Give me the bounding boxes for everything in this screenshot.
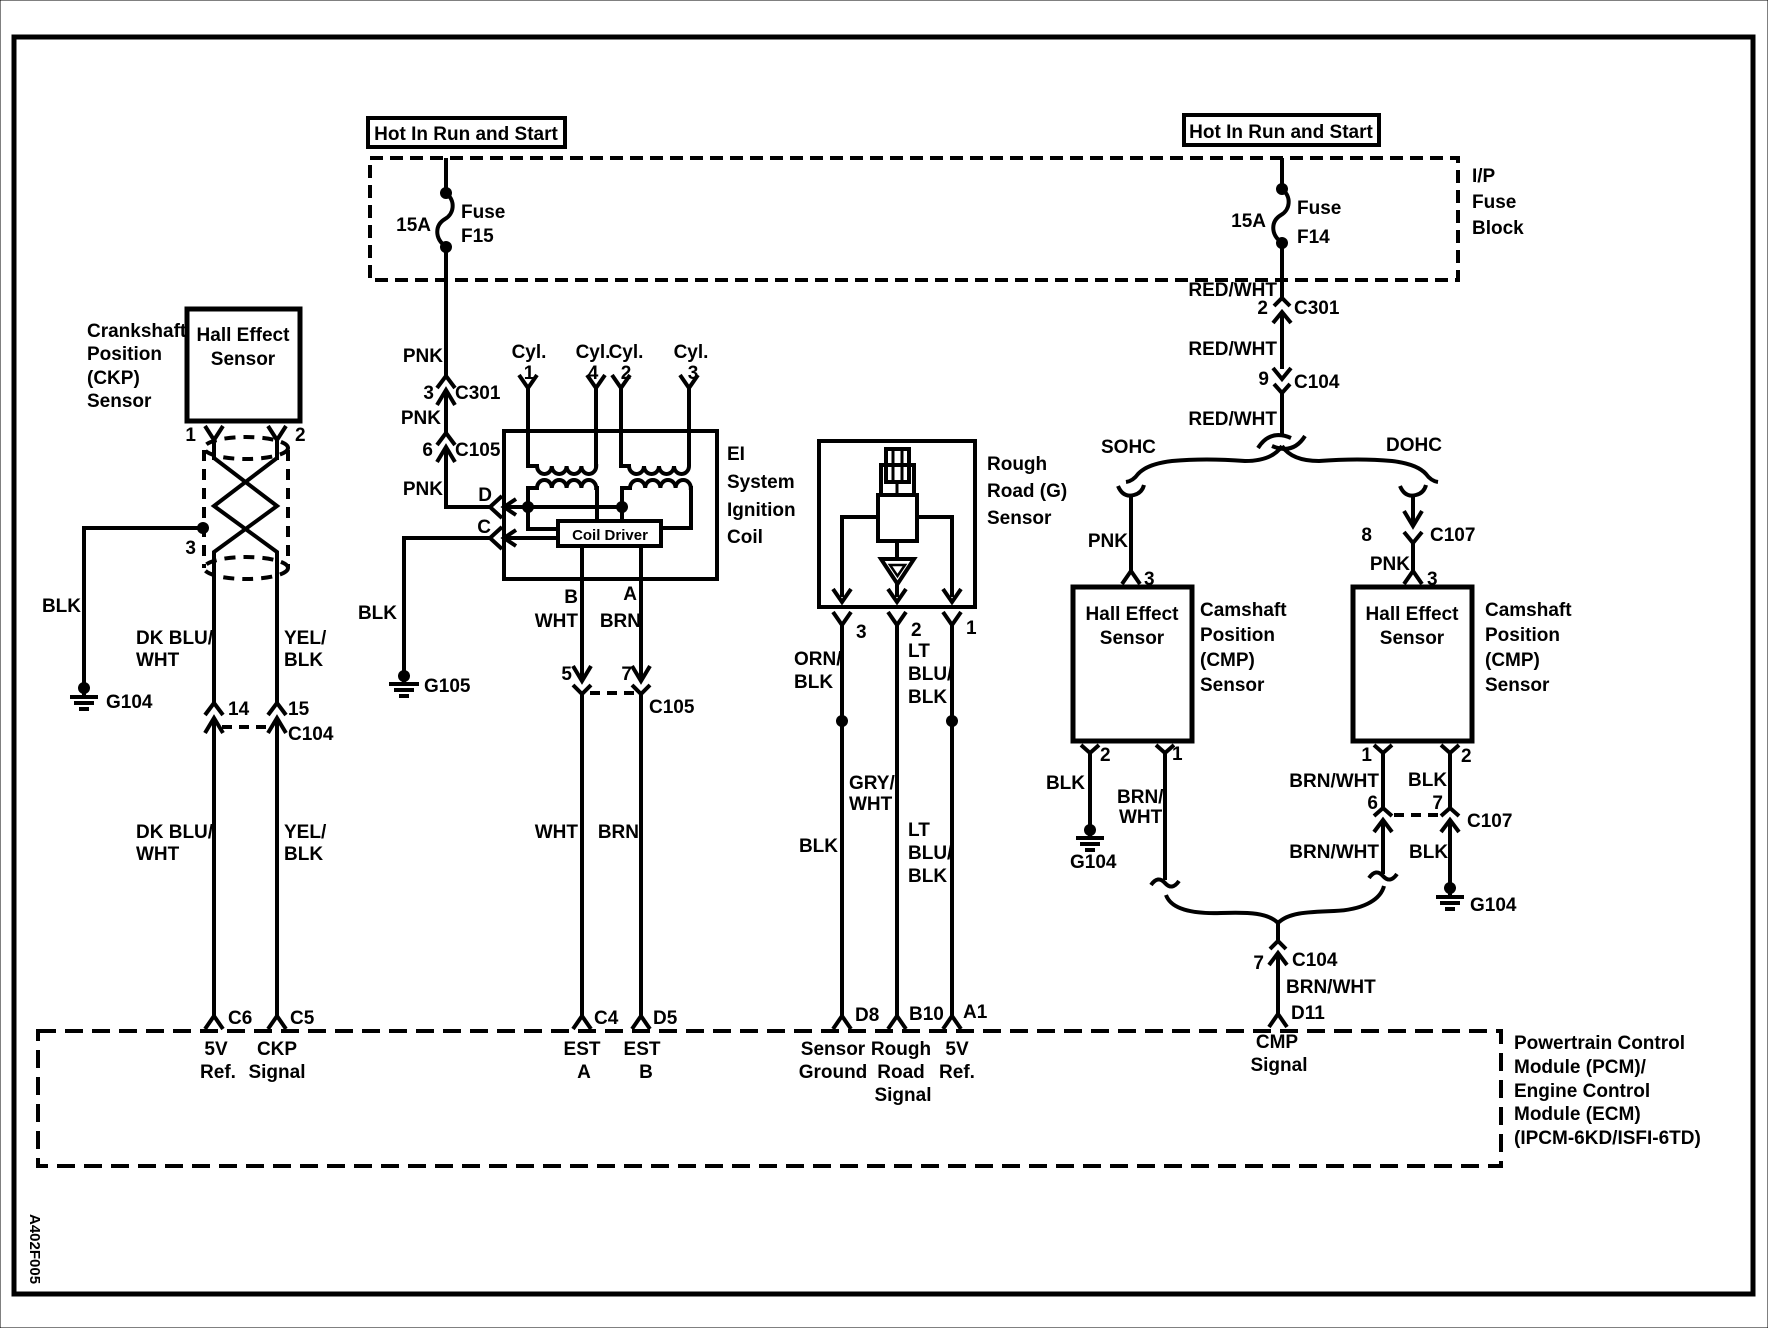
Hot In Run and Start box right [1184,115,1379,145]
DK BLU/WHT label lower [136,822,214,865]
label Crankshaft Position (CKP) Sensor [87,321,187,412]
wire 15 to PCM C5 [275,740,279,1016]
svg-text:Engine Control: Engine Control [1514,1081,1650,1102]
connector C301 pin 2 [1257,298,1339,369]
I/P fuse block (dashed) [370,158,1458,280]
svg-text:14: 14 [228,699,250,720]
sensor internal arrow center [888,589,906,602]
svg-text:RED/WHT: RED/WHT [1188,409,1277,430]
wire F14 to C301 [1280,243,1284,299]
svg-text:Signal: Signal [874,1085,931,1106]
svg-text:EST: EST [624,1039,661,1060]
connector A1 PCM [943,1002,988,1029]
svg-text:Sensor: Sensor [801,1039,866,1060]
svg-text:WHT: WHT [849,794,893,815]
svg-text:2: 2 [1461,746,1472,767]
svg-text:Cyl.: Cyl. [576,342,611,363]
YEL/BLK label upper [284,628,327,671]
connector C4 PCM [573,1008,619,1029]
svg-text:C104: C104 [288,724,334,745]
svg-text:BRN/WHT: BRN/WHT [1289,771,1379,792]
connector B10 PCM [888,1004,944,1029]
junction dot left primary [522,501,534,513]
svg-text:WHT: WHT [136,844,180,865]
break hook DOHC [1400,485,1426,496]
wire BLK from G105 to coil terminal C [404,538,490,674]
svg-text:D8: D8 [855,1005,879,1026]
svg-text:6: 6 [1367,793,1378,814]
twisted pair wire from pin 2 [214,458,277,703]
I/P Fuse Block label [1472,166,1524,239]
svg-text:WHT: WHT [136,650,180,671]
svg-text:BLK: BLK [799,836,838,857]
Rough Road (G) Sensor label [987,454,1067,529]
svg-text:Hot In Run and Start: Hot In Run and Start [374,124,558,145]
svg-text:BRN/: BRN/ [1117,787,1164,808]
svg-text:B: B [639,1062,653,1083]
GRY/WHT label [849,773,895,815]
Cyl. 2 terminal [609,342,644,431]
EST A label [564,1039,601,1083]
sensor internal wire center [895,584,899,597]
Camshaft Position (CMP) Sensor label SOHC [1200,600,1287,696]
svg-text:BRN/WHT: BRN/WHT [1289,842,1379,863]
svg-text:LT: LT [908,820,930,841]
svg-text:Sensor: Sensor [1100,628,1165,649]
svg-text:BRN: BRN [598,822,639,843]
svg-text:PNK: PNK [403,346,443,367]
svg-text:BLU/: BLU/ [908,843,953,864]
accelerometer element body [878,495,917,541]
svg-text:Camshaft: Camshaft [1200,600,1287,621]
svg-text:Ref.: Ref. [939,1062,975,1083]
sensor internal wire left [842,517,878,597]
svg-text:1: 1 [1361,745,1372,766]
svg-text:Signal: Signal [248,1062,305,1083]
svg-text:Signal: Signal [1250,1055,1307,1076]
svg-text:7: 7 [1253,953,1264,974]
svg-text:C301: C301 [1294,298,1340,319]
svg-text:PNK: PNK [403,479,443,500]
svg-text:Rough: Rough [871,1039,931,1060]
svg-text:WHT: WHT [535,822,579,843]
sensor internal arrow left [833,589,851,602]
svg-text:C: C [477,517,491,538]
svg-text:Hot In Run and Start: Hot In Run and Start [1189,122,1373,143]
svg-text:G104: G104 [1070,852,1117,873]
svg-text:BLK: BLK [284,650,323,671]
svg-text:Sensor: Sensor [211,349,276,370]
svg-text:Fuse: Fuse [461,202,505,223]
pin 2 rough road sensor [888,612,922,1016]
pin 3 CMP SOHC [1122,569,1155,590]
svg-text:A1: A1 [963,1002,988,1023]
junction dot right primary [616,501,628,513]
LT BLU/BLK label upper [908,641,953,708]
pin 2 CKP sensor [268,425,306,460]
ground G105 [389,670,471,697]
svg-text:Camshaft: Camshaft [1485,600,1572,621]
wire left primary to driver [528,507,558,529]
svg-text:BLK: BLK [794,672,833,693]
CMP hall effect sensor box SOHC [1073,587,1192,741]
CMP Signal label [1250,1032,1307,1076]
svg-text:Fuse: Fuse [1472,192,1516,213]
Cyl. 3 terminal [674,342,709,431]
svg-text:2: 2 [911,620,922,641]
svg-text:DOHC: DOHC [1386,435,1442,456]
split brace right arm [1282,446,1438,482]
svg-text:3: 3 [856,622,867,643]
ORN/BLK label [794,649,842,693]
svg-text:I/P: I/P [1472,166,1496,187]
svg-text:C6: C6 [228,1008,252,1029]
svg-text:C5: C5 [290,1008,315,1029]
wire break before split [1258,435,1305,449]
svg-text:DK BLU/: DK BLU/ [136,822,214,843]
svg-text:F15: F15 [461,226,494,247]
svg-text:(CMP): (CMP) [1485,650,1540,671]
svg-text:RED/WHT: RED/WHT [1188,339,1277,360]
wire shield to ground [84,528,203,686]
connector C104 pin 14 [205,699,250,742]
svg-text:Hall Effect: Hall Effect [1086,604,1180,625]
svg-text:SOHC: SOHC [1101,437,1156,458]
svg-text:15A: 15A [396,215,431,236]
B+ distribution wire [528,505,622,509]
connector C104 pin 15 [268,699,334,745]
BRN/WHT label CMP SOHC [1117,787,1164,828]
svg-text:G105: G105 [424,676,471,697]
CKP Signal label [248,1039,305,1083]
PCM/ECM box (dashed) [38,1031,1501,1166]
svg-text:BLK: BLK [42,596,81,617]
wire F15 to C301 [444,247,448,376]
svg-text:Module (ECM): Module (ECM) [1514,1104,1641,1125]
svg-text:6: 6 [422,440,433,461]
ground G104 CMP SOHC [1070,824,1117,873]
secondary coil 2-3 [621,431,689,474]
svg-text:BRN/WHT: BRN/WHT [1286,977,1376,998]
dashed link C104 [222,725,270,729]
svg-text:C104: C104 [1292,950,1338,971]
splice dot sensor ground wire [836,715,848,727]
YEL/BLK label lower [284,822,327,865]
svg-text:C107: C107 [1467,811,1512,832]
connector C301 pin 3 [423,376,500,433]
svg-text:Block: Block [1472,218,1524,239]
accelerometer element top crystal [886,449,909,482]
sensor seismic mass triangle [881,541,914,584]
break hook SOHC [1118,485,1144,496]
splice dot 5v ref wire [946,715,958,727]
svg-text:YEL/: YEL/ [284,822,327,843]
connector C107 pin 6 [1367,793,1392,874]
svg-text:G104: G104 [106,692,153,713]
primary coil left [528,480,597,521]
Cyl. 4 terminal [576,342,611,431]
svg-text:1: 1 [1172,744,1183,765]
break hook CMP SOHC wire [1151,879,1179,886]
svg-text:Powertrain Control: Powertrain Control [1514,1033,1685,1054]
pin 1 CKP sensor [185,425,223,460]
svg-text:Module (PCM)/: Module (PCM)/ [1514,1057,1647,1078]
svg-text:System: System [727,472,795,493]
svg-text:(CMP): (CMP) [1200,650,1255,671]
svg-text:Cyl.: Cyl. [609,342,644,363]
svg-text:D: D [478,485,492,506]
svg-text:WHT: WHT [535,611,579,632]
sensor internal wire right [917,517,952,597]
svg-text:BLK: BLK [358,603,397,624]
svg-text:D5: D5 [653,1008,678,1029]
svg-text:B10: B10 [909,1004,944,1025]
svg-text:A: A [623,584,637,605]
svg-text:C107: C107 [1430,525,1475,546]
DK BLU/WHT label upper [136,628,214,671]
connector C107 pin 7 [1432,793,1512,884]
wire SOHC branch [1129,495,1133,571]
svg-text:Rough: Rough [987,454,1047,475]
terminal C arrow into coil [504,530,558,546]
svg-text:CKP: CKP [257,1039,297,1060]
break hook CMP DOHC wire [1369,872,1397,879]
connector C104 pin 9 [1258,368,1339,437]
connector C6 PCM [205,1008,252,1029]
5V Ref. label rough road [939,1039,975,1083]
svg-text:F14: F14 [1297,227,1330,248]
svg-text:Sensor: Sensor [987,508,1052,529]
DOHC branch arrow to C107 [1404,495,1422,526]
svg-text:3: 3 [185,538,196,559]
coil driver box [558,521,661,546]
connector D8 PCM [833,1005,879,1029]
svg-text:Coil Driver: Coil Driver [572,527,648,544]
svg-text:Cyl.: Cyl. [674,342,709,363]
svg-text:Position: Position [87,344,162,365]
pin 3 rough road sensor [833,612,867,1016]
Hot In Run and Start box left [368,118,565,147]
Camshaft Position (CMP) Sensor label DOHC [1485,600,1572,696]
fuse F15 [396,187,505,253]
svg-text:LT: LT [908,641,930,662]
svg-text:Crankshaft: Crankshaft [87,321,187,342]
connector C105 pin 7 [621,546,694,1016]
join brace left arm [1166,895,1278,923]
svg-text:B: B [564,587,578,608]
secondary coil 1-4 [528,431,596,474]
connector D5 PCM [632,1008,678,1029]
wire right primary junction to driver top [620,507,624,521]
svg-text:Ignition: Ignition [727,500,796,521]
svg-text:5V: 5V [945,1039,969,1060]
svg-text:8: 8 [1361,525,1372,546]
connector C105 pin 5 [561,546,591,1016]
svg-text:WHT: WHT [1119,807,1163,828]
svg-text:1: 1 [185,425,196,446]
svg-text:C105: C105 [649,697,695,718]
connector D11 PCM [1269,1003,1325,1027]
svg-text:Position: Position [1485,625,1560,646]
svg-text:ORN/: ORN/ [794,649,842,670]
svg-text:15A: 15A [1231,211,1266,232]
dashed link C107 [1394,813,1441,817]
svg-text:Sensor: Sensor [1380,628,1445,649]
svg-text:PNK: PNK [1370,554,1410,575]
sensor internal arrow right [943,589,961,602]
svg-text:BLK: BLK [908,866,947,887]
svg-text:C301: C301 [455,383,501,404]
Powertrain Control Module label [1514,1033,1701,1149]
svg-text:Road: Road [877,1062,925,1083]
shield around twisted pair (dashed) [204,437,288,579]
wire 14 to PCM C6 [212,740,216,1016]
CKP hall effect sensor box [187,309,300,421]
svg-text:BLK: BLK [1046,773,1085,794]
svg-text:D11: D11 [1291,1003,1325,1024]
svg-text:Sensor: Sensor [1200,675,1265,696]
connector C105 pin 6 [422,433,500,507]
svg-text:Sensor: Sensor [1485,675,1550,696]
pin 1 CMP SOHC [1156,744,1183,880]
ground G104 (CKP shield) [70,682,153,713]
svg-text:PNK: PNK [401,408,441,429]
rough road sensor box [819,441,975,607]
svg-text:7: 7 [1432,793,1443,814]
split brace left arm [1126,446,1282,482]
svg-text:EI: EI [727,444,745,465]
svg-text:PNK: PNK [1088,531,1128,552]
accelerometer element mid block [881,465,914,495]
svg-text:Road (G): Road (G) [987,481,1067,502]
pin 1 rough road sensor [943,612,977,1016]
svg-text:Ref.: Ref. [200,1062,236,1083]
wire PNK to coil terminal D [446,505,490,507]
svg-text:15: 15 [288,699,310,720]
terminal D arrow into coil [504,499,528,515]
connector C104 pin 7 CMP [1253,941,1337,1014]
ground G104 CMP DOHC [1436,882,1517,916]
svg-text:9: 9 [1258,369,1269,390]
svg-text:BLK: BLK [1409,842,1448,863]
CMP hall effect sensor box DOHC [1353,587,1472,741]
svg-text:BLU/: BLU/ [908,664,953,685]
svg-text:5V: 5V [204,1039,228,1060]
svg-text:Coil: Coil [727,527,763,548]
svg-text:G104: G104 [1470,895,1517,916]
svg-text:Cyl.: Cyl. [512,342,547,363]
svg-text:GRY/: GRY/ [849,773,895,794]
wire feed into fuse F14 [1280,158,1284,188]
Rough Road Signal label [871,1039,932,1106]
svg-text:A402F005: A402F005 [26,1214,43,1284]
svg-text:EST: EST [564,1039,601,1060]
fuse F14 [1231,183,1341,249]
svg-text:1: 1 [966,618,977,639]
Cyl. 1 terminal [512,342,547,431]
svg-text:Hall Effect: Hall Effect [1366,604,1460,625]
wire feed into fuse F15 [444,158,448,192]
LT BLU/BLK label lower [908,820,953,887]
pin 3 CMP DOHC [1404,569,1438,590]
svg-text:2: 2 [295,425,306,446]
svg-text:(IPCM-6KD/ISFI-6TD): (IPCM-6KD/ISFI-6TD) [1514,1128,1701,1149]
svg-text:Sensor: Sensor [87,391,152,412]
svg-text:Position: Position [1200,625,1275,646]
Sensor Ground label [799,1039,868,1083]
EI system ignition coil box [504,431,717,579]
pin 2 CMP SOHC [1081,745,1111,828]
svg-text:5: 5 [561,664,572,685]
svg-text:A: A [577,1062,591,1083]
5V Ref. label [200,1039,236,1083]
svg-text:C4: C4 [594,1008,619,1029]
twisted pair wire from pin 1 [214,458,277,703]
svg-text:YEL/: YEL/ [284,628,327,649]
svg-text:Ground: Ground [799,1062,868,1083]
svg-text:2: 2 [1100,745,1111,766]
svg-text:CMP: CMP [1256,1032,1299,1053]
svg-text:Fuse: Fuse [1297,198,1341,219]
svg-text:BLK: BLK [1408,770,1447,791]
pin 1 CMP DOHC [1361,745,1392,808]
dashed link C105 [590,691,634,695]
EST B label [624,1039,661,1083]
EI System Ignition Coil label [727,444,796,548]
connector C5 PCM [268,1008,315,1029]
svg-text:BLK: BLK [908,687,947,708]
node 3 shield drain junction [185,522,209,559]
svg-text:C105: C105 [455,440,501,461]
svg-text:2: 2 [1257,298,1268,319]
svg-text:(CKP): (CKP) [87,368,140,389]
svg-text:Hall Effect: Hall Effect [197,325,291,346]
svg-text:3: 3 [423,383,434,404]
svg-text:C104: C104 [1294,372,1340,393]
pin 2 CMP DOHC [1441,745,1472,808]
svg-text:BLK: BLK [284,844,323,865]
terminal D flare [478,485,502,518]
svg-text:BRN: BRN [600,611,641,632]
connector C107 pin 8 [1361,525,1475,571]
primary coil right [622,480,691,528]
svg-text:DK BLU/: DK BLU/ [136,628,214,649]
terminal C flare [477,517,502,549]
join brace right arm [1278,886,1384,940]
